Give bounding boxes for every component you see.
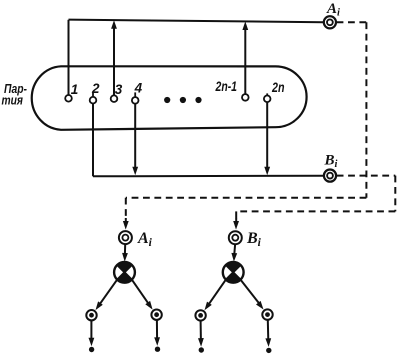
outlet circle B-left [195,310,205,320]
terminal Bi (upper) [324,170,336,182]
wire: riser from node 1 up to top bus [68,20,70,95]
dashed wire: down to lower Bi terminal [235,211,237,220]
dashed wire: down right edge [394,176,396,212]
switch circle B (crossed circle) [223,262,244,283]
svg-text:Bi: Bi [246,230,262,249]
arrow: A-left outlet down to sink dot [90,321,92,340]
svg-text:4: 4 [134,81,143,96]
dashed wire: leftwards to above lower Bi [236,210,395,212]
wire: top bus from node 1 riser to terminal Ai [69,20,324,23]
dashed wire: Bi terminal to right [337,175,396,177]
arrow into lower Ai terminal [125,218,127,223]
node 2n-1 circle [242,94,249,101]
wire: riser from node 3 up to top bus with arrow [113,28,115,96]
wire: bottom bus from node 2 drop to terminal Bi [93,175,324,178]
dashed wire: down to lower Ai terminal [125,198,127,221]
terminal Ai (upper) [324,16,336,28]
batch oval (stadium outline) [32,66,307,130]
arrow: A-right outlet down to sink dot [156,320,158,340]
tick stem above node 2n [266,93,268,95]
svg-text:3: 3 [115,82,123,97]
arrow: B-right outlet down to sink dot [267,320,270,340]
wire: switch A to left outlet with arrow [99,280,117,306]
terminal Ai (lower) [119,231,132,244]
svg-text:2: 2 [91,81,100,96]
wire: riser from node 2n-1 up to top bus with arrow [244,29,246,94]
switch circle A (crossed circle) [114,262,135,283]
node 2n circle [264,96,271,103]
terminal Bi (lower) [229,231,242,244]
arrow: B-left outlet down to sink dot [200,321,202,341]
svg-text:Ai: Ai [137,230,153,249]
tick stem above node 4 [134,92,136,97]
arrow: lower Ai terminal into switch circle [124,245,126,254]
node 2 circle [90,97,97,104]
outlet circle B-right [262,309,272,319]
wire: switch B to left outlet with arrow [208,280,226,306]
wire: switch B to right outlet with arrow [241,280,261,305]
ellipsis dots between node 4 and node 2n-1 [164,97,170,103]
outlet circle A-left [86,310,96,320]
wire: drop from node 2 down to bottom bus [92,103,94,176]
arrow into lower Bi terminal [235,218,237,223]
wire: drop from node 4 down to bottom bus with arrow [134,104,136,169]
svg-text:2n-1: 2n-1 [215,79,237,94]
wire: drop from node 2n down to bottom bus with arrow [266,102,268,169]
node 3 circle [111,95,118,102]
wire: switch A to right outlet with arrow [132,280,149,305]
arrow: lower Bi terminal into switch circle [233,245,236,254]
dashed wire: leftwards to above lower Ai [126,197,367,199]
svg-text:1: 1 [71,82,79,97]
svg-text:Ai: Ai [326,1,340,19]
svg-text:тия: тия [2,93,24,107]
tick stem above node 2 [92,92,94,97]
dashed wire: down right side [365,22,367,197]
node 1 circle [65,95,72,102]
node 4 circle [132,97,139,104]
svg-text:Bi: Bi [324,152,338,170]
dashed wire: Ai terminal to right [337,21,367,23]
outlet circle A-right [151,310,161,320]
svg-text:2n: 2n [271,80,284,95]
